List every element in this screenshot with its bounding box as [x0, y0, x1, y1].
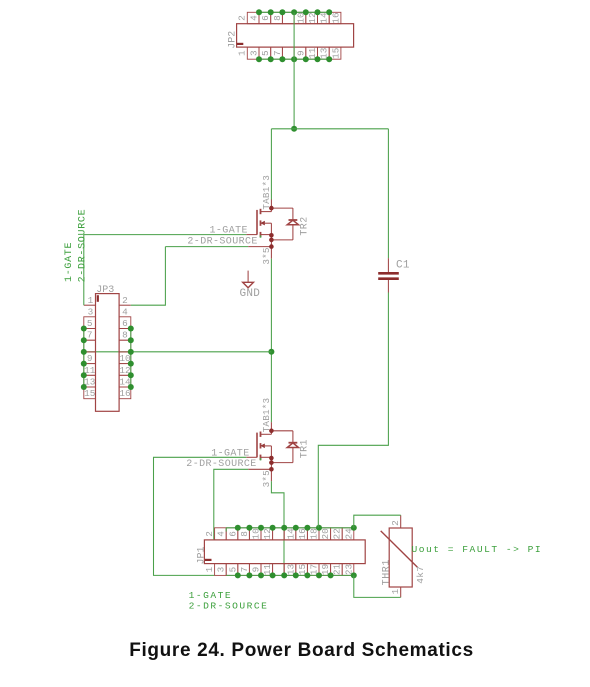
svg-text:8: 8: [239, 531, 250, 537]
wire node A horizontal: [271, 128, 388, 130]
capacitor C1: [378, 258, 399, 292]
TR2 pin name 1-GATE: [210, 226, 248, 237]
svg-text:9: 9: [295, 50, 306, 56]
svg-text:4: 4: [122, 307, 128, 318]
wire node A down to C1: [387, 129, 389, 258]
transistor TR1: [246, 422, 271, 481]
TR1 label: [300, 439, 311, 458]
JP1 pin numbers top row: [204, 528, 354, 540]
GND label: [240, 288, 261, 300]
TR2 drain junction dot: [269, 206, 274, 211]
TR1 source junction dots: [269, 456, 274, 472]
JP3 label: [96, 285, 114, 296]
net label 1-GATE (rotated): [64, 242, 75, 282]
svg-text:2-DR-SOURCE: 2-DR-SOURCE: [78, 209, 89, 283]
node A junction dot: [291, 126, 297, 132]
svg-text:2-DR-SOURCE: 2-DR-SOURCE: [189, 600, 269, 611]
connector JP1: [204, 528, 365, 576]
svg-text:1: 1: [88, 295, 94, 306]
wire TR1 source down through JP1 buses: [271, 481, 284, 575]
wire node B to JP3: [84, 351, 272, 353]
figure caption: [129, 640, 474, 661]
wire TR1 source to JP1 pin 2: [214, 469, 248, 539]
wire JP1 top bus: [226, 528, 354, 532]
body diode of TR2: [271, 208, 298, 240]
wire C1 down to JP1 top bus: [318, 293, 388, 528]
C1 label: [396, 260, 410, 272]
JP2 pin numbers bottom row: [236, 47, 341, 59]
svg-text:5: 5: [260, 50, 271, 56]
THR1 pin number 2: [390, 520, 401, 526]
svg-text:2: 2: [122, 295, 128, 306]
svg-text:2: 2: [390, 520, 401, 526]
wire 2-DR-SOURCE net to TR2 source: [165, 246, 248, 248]
connector JP3: [84, 294, 131, 412]
svg-text:22: 22: [332, 528, 343, 539]
svg-text:JP1: JP1: [197, 546, 208, 564]
svg-text:15: 15: [84, 388, 96, 399]
svg-text:THR1: THR1: [382, 559, 393, 585]
svg-text:TR2: TR2: [300, 216, 311, 235]
svg-text:TR1: TR1: [300, 439, 311, 458]
svg-text:TAB1*3: TAB1*3: [261, 398, 272, 433]
TR2 label: [300, 216, 311, 235]
wire 1-GATE net to TR2 gate: [84, 234, 247, 236]
svg-text:7: 7: [239, 567, 250, 573]
TR1 pin name 1-GATE: [211, 448, 249, 459]
wire JP2 bottom bus: [259, 58, 329, 60]
svg-text:1-GATE: 1-GATE: [64, 242, 75, 282]
svg-text:3*5: 3*5: [261, 470, 272, 487]
svg-text:3: 3: [88, 307, 94, 318]
junction dots JP1 top bus: [235, 525, 357, 531]
svg-text:JP2: JP2: [228, 31, 239, 49]
TR1 pin name 2-DR-SOURCE: [186, 459, 256, 470]
wire JP3 pin1 to 1-GATE net: [83, 235, 85, 306]
connector JP2: [237, 12, 354, 59]
svg-text:21: 21: [332, 564, 343, 576]
wire from JP2 pin 9/10 down to node A: [293, 12, 295, 129]
svg-text:8: 8: [122, 330, 128, 341]
junction dots JP3 left bus: [81, 326, 87, 391]
svg-text:8: 8: [272, 15, 283, 21]
svg-text:2-DR-SOURCE: 2-DR-SOURCE: [187, 237, 257, 248]
svg-text:2-DR-SOURCE: 2-DR-SOURCE: [186, 459, 256, 470]
wire JP1 top bus to THR1 pin 2: [354, 515, 401, 528]
junction dots JP1 bottom bus: [235, 572, 357, 578]
JP2 label: [228, 31, 239, 49]
net label 2-DR-SOURCE (bottom): [189, 600, 269, 611]
wire JP3 left bus: [83, 329, 85, 388]
ground: [243, 271, 254, 288]
svg-text:Figure 24. Power Board Schemat: Figure 24. Power Board Schematics: [129, 640, 474, 661]
JP1 pin numbers bottom row: [204, 564, 354, 576]
TR1 pin label 3*5: [261, 470, 272, 487]
svg-text:1: 1: [204, 566, 215, 572]
svg-text:6: 6: [227, 531, 238, 537]
TR2 pin name 2-DR-SOURCE: [187, 237, 257, 248]
wire JP1 bottom bus: [226, 574, 354, 576]
svg-text:3: 3: [248, 50, 259, 56]
net label 2-DR-SOURCE (rotated): [78, 209, 89, 283]
svg-text:9: 9: [251, 567, 262, 573]
svg-text:4: 4: [248, 15, 259, 21]
svg-text:7: 7: [87, 330, 93, 341]
wire JP1 bottom bus to THR1 pin 1: [354, 575, 401, 597]
svg-text:5: 5: [227, 566, 238, 572]
svg-text:2: 2: [236, 15, 247, 21]
svg-text:6: 6: [260, 15, 271, 21]
JP1 label: [197, 546, 208, 564]
THR1 pin number 1: [390, 588, 401, 594]
svg-text:15: 15: [330, 47, 341, 59]
JP3 pin numbers left column: [84, 295, 96, 399]
svg-text:C1: C1: [396, 260, 410, 272]
TR2 pin label 3*5: [261, 247, 272, 264]
thermistor THR1: [381, 515, 418, 597]
svg-text:5: 5: [87, 318, 93, 329]
svg-text:3: 3: [216, 566, 227, 572]
junction dots JP3 right bus: [128, 326, 134, 391]
svg-text:4: 4: [216, 531, 227, 537]
wire node A down to TR2 drain: [270, 129, 272, 200]
net label Uout = FAULT -> PI: [412, 544, 543, 555]
svg-text:1: 1: [390, 588, 401, 594]
junction dots JP2 bottom bus: [256, 56, 332, 62]
junction dots JP2 top bus: [256, 9, 332, 15]
TR1 drain junction dot: [269, 429, 274, 434]
JP2 pin numbers top row: [236, 12, 341, 24]
wire JP3 pin2 to 2-DR-SOURCE net: [131, 247, 166, 306]
net label 1-GATE (bottom): [189, 590, 233, 601]
svg-text:TAB1*3: TAB1*3: [261, 175, 272, 210]
svg-text:GND: GND: [240, 288, 261, 300]
svg-text:4k7: 4k7: [415, 566, 426, 584]
svg-text:9: 9: [87, 353, 93, 364]
svg-text:2: 2: [204, 531, 215, 537]
svg-text:16: 16: [119, 388, 131, 399]
svg-text:6: 6: [122, 318, 128, 329]
TR2 source junction dots: [269, 233, 274, 249]
svg-text:1: 1: [236, 50, 247, 56]
svg-text:Uout = FAULT -> PI: Uout = FAULT -> PI: [412, 544, 543, 555]
THR1 label: [382, 559, 393, 585]
node B junction dot: [268, 349, 274, 355]
svg-text:7: 7: [272, 50, 283, 56]
wire TR1 gate to JP1 pin 1: [154, 457, 247, 575]
svg-text:20: 20: [320, 528, 331, 540]
svg-text:JP3: JP3: [96, 285, 114, 296]
transistor TR2: [246, 200, 271, 259]
svg-text:3*5: 3*5: [261, 247, 272, 264]
wire JP2 top bus: [259, 11, 329, 13]
JP3 pin numbers right column: [119, 295, 131, 399]
THR1 value 4k7: [415, 566, 426, 584]
wire JP3 right bus: [130, 329, 132, 388]
wire TR2 source down to node B: [270, 259, 272, 423]
TR2 pin label TAB1*3: [261, 175, 272, 210]
TR1 pin label TAB1*3: [261, 398, 272, 433]
body diode of TR1: [271, 431, 298, 463]
svg-text:16: 16: [330, 12, 341, 24]
